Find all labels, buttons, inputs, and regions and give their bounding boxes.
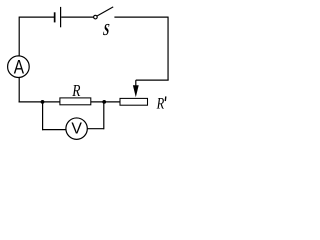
wire voltmeter loop right horizontal — [87, 128, 104, 130]
battery cell: long thin positive plate — [60, 7, 61, 27]
wire voltmeter loop right vertical — [103, 102, 105, 129]
svg-text:R: R — [71, 81, 80, 100]
label R' prime tick — [164, 96, 167, 101]
wire right vertical — [167, 17, 169, 81]
rheostat R' body box — [120, 98, 148, 105]
wire left vertical (top corner to ammeter) — [18, 17, 20, 56]
battery cell: short thick negative plate — [54, 12, 56, 22]
wire ammeter to bottom wire — [18, 78, 20, 103]
bottom main wire — [19, 101, 120, 103]
wire voltmeter loop bottom-left horizontal — [42, 129, 66, 131]
rheostat slider arrowhead — [133, 85, 139, 97]
svg-text:A: A — [14, 57, 24, 78]
wire elbow to rheostat slider — [136, 79, 169, 81]
wire rheostat slider shaft — [135, 80, 137, 86]
svg-text:R: R — [156, 96, 165, 113]
wire voltmeter loop left vertical — [42, 102, 44, 130]
switch right contact wire to top-right corner — [114, 16, 168, 18]
voltmeter circle — [66, 118, 87, 139]
wire top-left horizontal (corner to battery) — [19, 16, 54, 18]
ammeter circle — [8, 56, 30, 78]
node right junction dot — [102, 100, 106, 104]
switch S lever (open) — [97, 7, 113, 16]
resistor R box — [60, 98, 91, 105]
svg-text:V: V — [71, 121, 82, 138]
wire battery to switch — [61, 16, 93, 18]
switch S pivot circle — [94, 15, 98, 19]
node left junction dot — [41, 100, 45, 104]
